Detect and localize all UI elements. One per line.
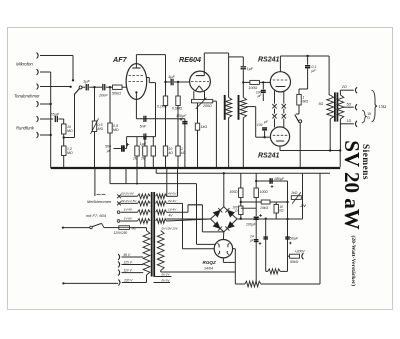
- RGQZ cathode lead: [222, 258, 224, 263]
- transformer winding left row 3: [138, 210, 151, 215]
- capacitor 1uF grid feed: [242, 57, 244, 66]
- capacitor 0,1uF: [307, 56, 309, 65]
- svg-text:4V-0V: 4V-0V: [168, 192, 177, 196]
- RE604 anode bar: [196, 75, 205, 77]
- right row leads: [167, 195, 178, 197]
- RE604 grid dash: [191, 81, 209, 83]
- screen feed row: [241, 201, 288, 203]
- svg-text:0V-2V-6V: 0V-2V-6V: [121, 192, 135, 196]
- tube AF7 envelope: [126, 64, 147, 100]
- diode D1: [213, 210, 220, 217]
- tube RS241 I envelope: [270, 72, 290, 92]
- svg-text:kΩ: kΩ: [169, 151, 174, 155]
- resistor 10 MOhm: [63, 119, 65, 124]
- svg-text:14/04: 14/04: [204, 267, 213, 271]
- junction row: [241, 207, 256, 209]
- capacitor 100uF grid: [262, 82, 264, 89]
- svg-text:95 V: 95 V: [124, 253, 131, 257]
- svg-text:+200V: +200V: [295, 250, 306, 254]
- resistor 100 Ohm a: [240, 173, 242, 188]
- svg-text:MΩ: MΩ: [67, 129, 73, 133]
- diode D4: [227, 222, 234, 229]
- output transformer primary lead: [328, 56, 330, 95]
- RGQZ filament feed lower: [183, 248, 215, 250]
- electrolytic 100uF cathode: [184, 119, 186, 168]
- resistor 1 MOhm: [298, 89, 300, 94]
- svg-text:100µF: 100µF: [176, 114, 187, 118]
- svg-text:1V-6V: 1V-6V: [124, 216, 133, 220]
- svg-text:1Ω: 1Ω: [347, 119, 352, 123]
- svg-text:1µF: 1µF: [83, 79, 91, 84]
- AF7 cathode dot: [135, 91, 137, 93]
- secondary bottom tap: [339, 119, 341, 151]
- svg-text:125 V: 125 V: [124, 261, 133, 265]
- RS241 I cathode bar: [276, 86, 286, 88]
- svg-text:Tonabnehmer: Tonabnehmer: [14, 94, 40, 99]
- svg-text:20nF: 20nF: [98, 94, 108, 98]
- interstage core bar right: [238, 95, 240, 120]
- svg-text:Rundfunk: Rundfunk: [16, 126, 35, 131]
- capacitor 20nF: [102, 84, 104, 90]
- resistor 0,5 MOhm: [177, 82, 179, 96]
- HV return riser: [234, 249, 236, 284]
- transformer winding right row 3: [156, 210, 167, 215]
- bridge rectifier diamond: [211, 207, 238, 232]
- mains switch: [90, 226, 93, 229]
- mains neutral line: [62, 282, 64, 284]
- svg-text:MΩ: MΩ: [67, 151, 73, 155]
- input jack J2: [37, 69, 39, 75]
- svg-text:50kΩ: 50kΩ: [290, 260, 299, 264]
- capacitor 1uF coupling: [82, 86, 85, 88]
- resistor 1 MOhm: [136, 137, 138, 146]
- svg-text:0V-4V: 0V-4V: [168, 199, 177, 203]
- RS241 I anode top lead: [279, 56, 281, 72]
- svg-text:100: 100: [257, 123, 263, 127]
- svg-text:mit F7, 604: mit F7, 604: [86, 213, 107, 218]
- AF7 cathode lead: [135, 94, 137, 119]
- input jack J6: [37, 132, 39, 138]
- svg-text:RS241: RS241: [258, 153, 280, 160]
- capacitor 50uF: [285, 236, 290, 238]
- svg-text:25µF: 25µF: [49, 112, 60, 117]
- svg-text:10kΩ: 10kΩ: [260, 206, 268, 210]
- potentiometer 0,5 MOhm volume: [94, 87, 96, 121]
- input jack J3: [37, 84, 39, 90]
- svg-text:5Ω: 5Ω: [319, 102, 324, 106]
- svg-text:0V-2V: 0V-2V: [162, 272, 171, 276]
- RS241 II anode lead to output transformer: [279, 146, 281, 150]
- hum pot 200 Ohm: [192, 99, 213, 103]
- lower feeder line: [110, 183, 197, 185]
- svg-text:100µF: 100µF: [246, 223, 257, 227]
- resistor 100 Ohm c: [255, 173, 257, 188]
- electrolytic 180uF: [256, 180, 287, 182]
- hum pot return wire: [213, 100, 217, 102]
- wire to volume switch arm: [64, 137, 75, 139]
- transformer winding left row 1: [138, 194, 151, 199]
- capacitor 5nF cathode: [136, 118, 185, 120]
- interstage top bar: [229, 56, 244, 58]
- bridge right lead: [237, 218, 303, 220]
- capacitor 25uF: [54, 116, 56, 122]
- electrolytic 500uF: [114, 148, 121, 150]
- zigzag resistor loop: [266, 270, 268, 272]
- resistor 1 kOhm cathode: [195, 123, 199, 130]
- svg-text:-3V: -3V: [300, 203, 307, 208]
- svg-text:50µF: 50µF: [290, 237, 299, 241]
- svg-text:RE604: RE604: [179, 55, 201, 64]
- svg-text:100Ω: 100Ω: [229, 190, 238, 194]
- rectifier tube RGQZ envelope: [214, 240, 232, 258]
- output transformer secondary winding: [337, 95, 344, 119]
- svg-text:MΩ: MΩ: [302, 100, 308, 104]
- svg-text:1µF: 1µF: [140, 142, 147, 146]
- resistor lower third: [152, 137, 154, 146]
- svg-text:MΩ: MΩ: [113, 128, 119, 132]
- diode D3: [213, 222, 220, 229]
- brace large: [372, 90, 378, 122]
- svg-text:Mikrofon: Mikrofon: [16, 62, 33, 67]
- bias line: [235, 283, 245, 285]
- tube RE604 envelope: [190, 71, 211, 92]
- resistor 0,1 MOhm: [165, 82, 167, 96]
- RE604 filament V: [196, 86, 200, 91]
- HV feed elbow: [188, 204, 202, 206]
- svg-text:50kΩ: 50kΩ: [112, 92, 121, 96]
- svg-text:100Ω: 100Ω: [260, 190, 269, 194]
- svg-text:5Ω: 5Ω: [347, 103, 352, 107]
- svg-text:1V-4V: 1V-4V: [124, 208, 133, 212]
- center tap stubs: [154, 276, 172, 278]
- svg-text:100Ω: 100Ω: [249, 86, 258, 90]
- transformer winding left row 2: [138, 201, 151, 206]
- +200V output: [288, 255, 290, 257]
- svg-text:1µF: 1µF: [247, 67, 254, 71]
- svg-text:110 V: 110 V: [124, 269, 133, 273]
- RS241 I filament leads with plug crosses: [274, 91, 276, 104]
- sub rail: [156, 172, 330, 174]
- resistor 1,2 MOhm: [62, 146, 67, 156]
- AF7 anode bar: [132, 67, 140, 69]
- mains line with switch: [62, 227, 64, 229]
- transformer winding right row 1: [156, 194, 167, 199]
- interstage winding primary: [225, 97, 231, 117]
- secondary lower lead to RS241 II grid: [246, 106, 256, 108]
- left row leads: [121, 195, 138, 197]
- RGQZ inner electrodes: [218, 243, 230, 254]
- resistor 100 Ohm b: [239, 206, 243, 215]
- resistor 10 kOhm h: [261, 200, 270, 204]
- ground bus: [51, 167, 341, 169]
- output transformer core: [334, 92, 336, 121]
- switch S2: [296, 113, 299, 115]
- svg-text:180µF: 180µF: [274, 177, 285, 181]
- AF7 side grid lead: [147, 77, 150, 79]
- svg-text:AF7: AF7: [112, 55, 128, 64]
- wire J1 down to switch contact: [72, 56, 74, 80]
- bridge top lead: [223, 173, 225, 207]
- output transformer primary winding: [327, 95, 334, 119]
- capacitor 100uF grid II: [264, 131, 266, 137]
- transformer winding right row 4: [156, 219, 167, 224]
- interstage core bar left: [224, 95, 226, 120]
- resistor field coil zigzag: [245, 281, 261, 287]
- input jack J5: [37, 116, 39, 122]
- resistor 50 kOhm grid stopper: [113, 85, 123, 89]
- svg-text:SV 20 aW: SV 20 aW: [340, 140, 364, 229]
- brace small: [362, 110, 366, 123]
- svg-text:0V-10V-15V: 0V-10V-15V: [162, 227, 179, 231]
- resistor 10 kOhm v: [275, 202, 277, 219]
- svg-text:MΩ: MΩ: [98, 127, 104, 131]
- mess terminal marks: [97, 193, 106, 196]
- svg-text:15Ω: 15Ω: [379, 104, 387, 109]
- svg-text:0,5MΩ: 0,5MΩ: [172, 107, 183, 111]
- RE604 filament leads: [193, 91, 195, 99]
- resistor 1 kOhm lower: [176, 146, 180, 156]
- svg-text:5nF: 5nF: [140, 125, 147, 129]
- capacitor 1uF feedback: [127, 136, 156, 138]
- svg-text:220 V: 220 V: [123, 279, 133, 283]
- resistor 2 MOhm: [144, 137, 146, 146]
- input jack J1 (Mikrofon): [37, 53, 39, 59]
- svg-text:RGQZ: RGQZ: [203, 260, 216, 265]
- input jack J4: [37, 101, 39, 107]
- transformer winding right row 2: [156, 201, 167, 206]
- primary winding tall: [146, 228, 148, 231]
- AF7 grid dash lines: [129, 75, 145, 77]
- tube RS241 II envelope: [270, 127, 289, 146]
- bias pot 1kOhm: [302, 173, 304, 218]
- svg-text:200Ω: 200Ω: [202, 104, 212, 108]
- bridge bottom lead to rectifier tube: [222, 232, 224, 240]
- svg-text:2Ω: 2Ω: [341, 85, 347, 89]
- svg-text:0V-2V-2,5V: 0V-2V-2,5V: [121, 199, 137, 203]
- svg-text:120V/250: 120V/250: [114, 231, 128, 235]
- feeder stubs from bus: [109, 168, 111, 184]
- primary taps: [118, 254, 120, 260]
- diode D2: [227, 210, 234, 217]
- bridge left lead: [167, 218, 211, 220]
- filter riser: [287, 181, 289, 271]
- capacitor on loop: [263, 236, 268, 238]
- svg-text:kΩ: kΩ: [279, 209, 284, 213]
- coupling capacitor 1uF to RE604: [166, 81, 171, 83]
- secondary mid tap: [343, 106, 354, 108]
- transformer winding left row 4: [138, 219, 151, 224]
- resistor 100 Ohm grid stopper RS241: [243, 81, 250, 83]
- svg-text:Meßklemmen: Meßklemmen: [87, 199, 112, 204]
- selector switch S1: [79, 86, 82, 89]
- svg-text:1kΩ: 1kΩ: [291, 191, 298, 195]
- input bus vertical wire: [50, 72, 52, 168]
- svg-text:1µF: 1µF: [168, 74, 176, 79]
- svg-text:1V-4V: 1V-4V: [168, 208, 177, 212]
- mess terminal stub: [94, 168, 96, 196]
- fuse: [119, 226, 130, 230]
- interstage winding secondary: [240, 97, 246, 117]
- resistor 0,5 MOhm grid leak: [109, 87, 111, 123]
- B+ top rail: [280, 55, 329, 57]
- svg-text:1kΩ: 1kΩ: [201, 125, 208, 129]
- pot wiper to cathode resistor: [197, 103, 199, 123]
- svg-text:0V-5V: 0V-5V: [162, 278, 171, 282]
- feeder drop to rectifier filament: [196, 184, 198, 245]
- power transformer core: [151, 192, 153, 277]
- HV secondary winding: [157, 231, 164, 271]
- secondary top tap: [339, 90, 341, 95]
- svg-text:(20-Watt-Verstärker): (20-Watt-Verstärker): [350, 236, 357, 287]
- winding column riser: [166, 168, 168, 196]
- RS241 II cathode bar: [276, 140, 284, 142]
- svg-text:RS241: RS241: [258, 57, 280, 64]
- smoothing loop: [265, 219, 267, 272]
- AF7 top cap lead to anode line: [135, 55, 137, 64]
- resistor 10 kOhm lower: [163, 146, 167, 156]
- RE604 anode lead: [203, 53, 205, 76]
- electrolytic 100uF filter: [254, 216, 259, 218]
